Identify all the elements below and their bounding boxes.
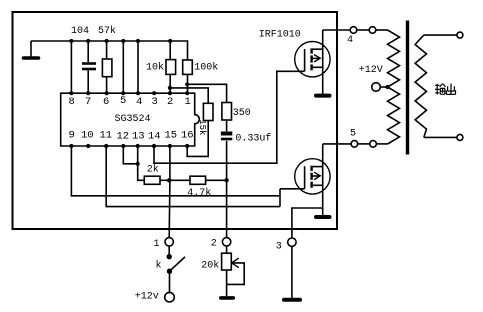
capacitor C2 0.33uf (221, 132, 272, 144)
svg-text:k: k (156, 260, 162, 272)
svg-text:15k: 15k (197, 119, 207, 135)
pin 7 (85, 91, 91, 108)
svg-text:7: 7 (85, 96, 91, 108)
wire bus to pin 5 (122, 41, 124, 93)
svg-text:12: 12 (117, 131, 130, 143)
svg-text:2k: 2k (147, 164, 159, 176)
pin 15 (165, 130, 178, 149)
wire pin 9 to Q2 gate line (71, 146, 280, 196)
svg-text:6: 6 (103, 96, 109, 108)
svg-text:350: 350 (233, 108, 251, 119)
svg-text:2: 2 (211, 239, 217, 250)
svg-text:14: 14 (148, 131, 161, 143)
terminal 2 (211, 238, 231, 250)
ground Q1 source (316, 94, 330, 98)
pin 12 (117, 131, 130, 149)
wire bus to pin 8 (70, 41, 72, 93)
svg-text:1: 1 (185, 96, 191, 108)
terminal +12v (135, 291, 175, 302)
resistor 57k (98, 25, 116, 93)
wire terminal 5 to primary (376, 143, 387, 145)
svg-text:2: 2 (167, 96, 173, 108)
pin 9 (69, 130, 75, 149)
wire terminal 4 to primary (376, 29, 388, 31)
svg-text:0.33uf: 0.33uf (235, 132, 271, 144)
wire secondary top lead (424, 34, 457, 36)
wire pin 11 to Q2 gate line (106, 146, 280, 207)
terminal 5 (350, 128, 376, 147)
svg-text:4: 4 (136, 96, 142, 108)
svg-text:16: 16 (181, 130, 194, 142)
svg-text:10k: 10k (146, 62, 164, 74)
pin 1 (185, 91, 191, 108)
svg-text:+12V: +12V (359, 65, 383, 76)
svg-text:3: 3 (152, 96, 158, 108)
svg-text:100k: 100k (194, 62, 218, 74)
terminal 3 (276, 238, 296, 253)
wire pin 13 down to 2k (138, 146, 145, 180)
op-amp U1 SG3524 IC body (61, 93, 200, 146)
terminal +12V (359, 65, 383, 91)
svg-text:10: 10 (81, 130, 94, 142)
capacitor C1 104 (71, 26, 96, 93)
svg-text:20k: 20k (201, 260, 219, 272)
svg-text:+12v: +12v (135, 291, 159, 302)
node bus junction dots (69, 39, 172, 43)
svg-text:4.7k: 4.7k (187, 187, 211, 199)
pin 5 (120, 91, 126, 107)
wire 15k bottom to pin 16 (187, 121, 208, 157)
ground Q2 source (316, 215, 330, 219)
terminal output bottom (457, 134, 463, 140)
pin 14 (148, 131, 161, 149)
transformer secondary winding (415, 35, 426, 137)
pin 11 (100, 130, 113, 149)
svg-text:8: 8 (69, 96, 75, 108)
wire pin 12 down (123, 146, 137, 164)
svg-text:11: 11 (100, 130, 113, 142)
wire center tap (380, 86, 387, 88)
wire Q2 gate lead (280, 188, 305, 190)
pin 16 (181, 130, 194, 149)
wire Q2 drain/source vertical (322, 144, 324, 216)
svg-text:57k: 57k (98, 25, 116, 37)
wire terminal 3 to ground (291, 246, 293, 298)
wire pin 14 to Q1 gate (154, 71, 305, 163)
resistor 4.7k (187, 176, 211, 199)
wire pin1 junction to 350 top (187, 84, 226, 102)
svg-text:9: 9 (69, 130, 75, 142)
wire 4.7k to cap line (206, 179, 227, 181)
wire pin2 junction to 15k top (170, 88, 208, 103)
ground (top-left) (24, 41, 39, 58)
svg-text:5: 5 (350, 128, 356, 139)
pin 10 (81, 130, 94, 149)
wire capacitor down to terminal 2 (226, 141, 228, 238)
resistor 100k (183, 60, 219, 93)
svg-text:SG3524: SG3524 (115, 114, 151, 125)
wire terminal 3 to Q2 source (292, 208, 323, 238)
ground terminal 3 (284, 298, 300, 302)
transistor Q2 (lower MOSFET) (295, 159, 330, 194)
wire Q2 drain to terminal 5 (323, 143, 351, 145)
resistor 15k (197, 103, 213, 135)
pin 3 (152, 91, 158, 108)
wire 2k to junction (160, 179, 190, 181)
ground 20k (221, 296, 234, 300)
node pin12/13 junction (136, 162, 140, 166)
wire top supply bus (31, 41, 188, 60)
wire pin15 / terminal 1 (168, 146, 171, 238)
node pin1 junction (185, 82, 189, 86)
svg-text:15: 15 (165, 130, 178, 142)
transformer primary winding (388, 30, 400, 144)
svg-text:3: 3 (276, 242, 282, 253)
switch k (156, 246, 186, 274)
svg-text:4: 4 (347, 35, 353, 46)
svg-text:13: 13 (132, 131, 145, 143)
resistor 2k (144, 164, 160, 185)
wire switch to +12v (169, 271, 171, 292)
terminal output top (457, 32, 463, 38)
terminal 1 (154, 238, 174, 250)
svg-text:IRF1010: IRF1010 (259, 30, 301, 41)
wire secondary bottom lead (424, 136, 457, 138)
wire Q1 drain/source vertical (322, 30, 324, 94)
node 4.7k/cap junction (224, 178, 228, 182)
pin 13 (132, 131, 145, 149)
pin 4 (136, 91, 142, 108)
resistor 10k (146, 41, 176, 93)
transformer core (406, 21, 409, 155)
terminal 4 (347, 27, 376, 46)
wire Q2 gate vertical (279, 189, 281, 207)
pin 6 (103, 91, 109, 108)
transistor Q1 IRF1010 (upper MOSFET) (259, 30, 330, 77)
wire bus to pin 4 (137, 41, 139, 93)
node center tap (385, 85, 389, 89)
wire Q1 drain to terminal 4 (323, 29, 351, 31)
resistor 350 (222, 103, 251, 121)
svg-text:1: 1 (154, 239, 160, 250)
pin 8 (69, 91, 75, 108)
potentiometer 20k (201, 246, 244, 296)
svg-text:104: 104 (71, 26, 89, 37)
node pin2 junction (168, 86, 172, 90)
border frame (13, 12, 338, 229)
pin 2 (167, 91, 173, 108)
node 2k/terminal1 junction (167, 178, 171, 182)
svg-text:5: 5 (120, 95, 126, 107)
wire 350 to capacitor (226, 120, 228, 131)
label 输出 output (435, 84, 456, 95)
